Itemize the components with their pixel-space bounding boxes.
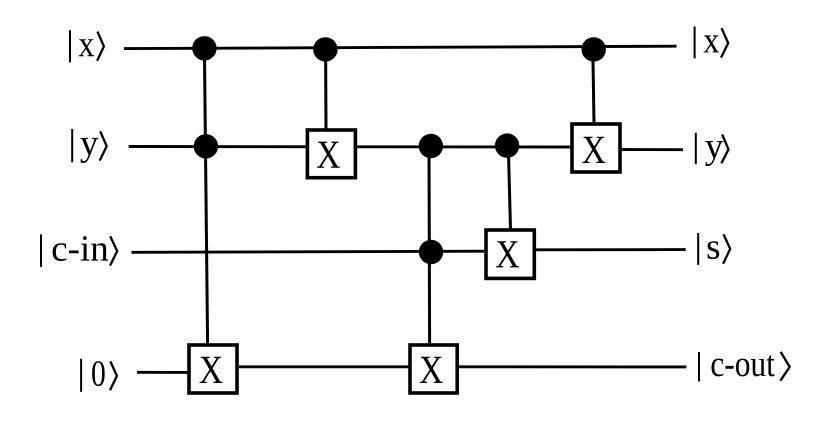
control dot C4 on q1 (column 4) [495, 133, 519, 157]
label |c-in> left: ket bar [40, 234, 42, 267]
vertical connector column 3 (Toffoli controls y,c-in -> target q3) [428, 146, 432, 344]
control dot C1b on q1 (column 1) [194, 134, 218, 158]
vertical connector column 2 (CNOT control x -> target y) [324, 49, 327, 129]
label |y> right: ket bar [695, 133, 697, 164]
label |x> left: angle bracket [97, 32, 104, 61]
wire q0 (|x> line) [124, 46, 677, 48]
label |y> right: angle bracket [721, 134, 728, 163]
label |y> right: letter y [705, 141, 723, 166]
wire q1 (|y> line, right stub) [622, 148, 683, 151]
control dot C5 on q0 (column 5) [582, 37, 606, 61]
label |s> right: angle bracket [723, 234, 730, 263]
vertical connector column 1 (Toffoli controls x,y -> target q3) [204, 48, 207, 344]
label |0> left: angle bracket [110, 361, 117, 390]
label |c-out> right: text c-out [712, 355, 775, 376]
wire q1 (|y> line, main segment) [129, 145, 570, 148]
label |y> left: letter y [80, 138, 98, 163]
label |c-in> left: text c-in [53, 236, 109, 261]
X gate box G3 on q3 (column 3 Toffoli target) [410, 345, 457, 393]
X gate box G1 on q3 (column 1 Toffoli target) [189, 345, 237, 393]
label |x> right: ket bar [694, 27, 696, 59]
vertical connector column 4 (CNOT control y -> target c-in) [508, 146, 510, 230]
label |x> right: angle bracket [721, 28, 728, 57]
label |s> right: ket bar [697, 233, 699, 265]
label |x> left: letter x [79, 39, 95, 56]
control dot C3a on q1 (column 3) [419, 134, 443, 158]
label |x> right: letter x [704, 35, 720, 52]
wire q2 (|c-in> line, right stub to |s>) [536, 248, 686, 251]
control dot C3b on q2 (column 3) [419, 240, 443, 264]
label |c-out> right: angle bracket [780, 352, 789, 381]
wire q3 (|0> line, main segment to |c-out>) [239, 365, 686, 368]
X gate box G4 on q2 (column 4 CNOT target) [486, 230, 534, 278]
wire q3 (|0> line, left stub) [137, 371, 191, 374]
vertical connector column 5 (CNOT control x -> target y) [593, 49, 594, 123]
label |c-in> left: angle bracket [110, 236, 117, 265]
wire q2 (|c-in> line, left segment) [131, 251, 484, 252]
control dot C2 on q0 (column 2) [313, 37, 337, 61]
label |0> left: digit 0 [92, 361, 105, 386]
label |s> right: letter s [708, 241, 720, 259]
label |x> left: ket bar [69, 30, 71, 62]
X gate box G2 on q1 (column 2 CNOT target) [307, 130, 355, 178]
control dot C1a on q0 (column 1) [192, 36, 216, 60]
label |c-out> right: ket bar [698, 352, 700, 382]
label |0> left: ket bar [80, 359, 82, 392]
label |y> left: angle bracket [100, 131, 107, 160]
label |y> left: ket bar [71, 129, 73, 162]
X gate box G5 on q1 (column 5 CNOT target) [572, 124, 620, 172]
